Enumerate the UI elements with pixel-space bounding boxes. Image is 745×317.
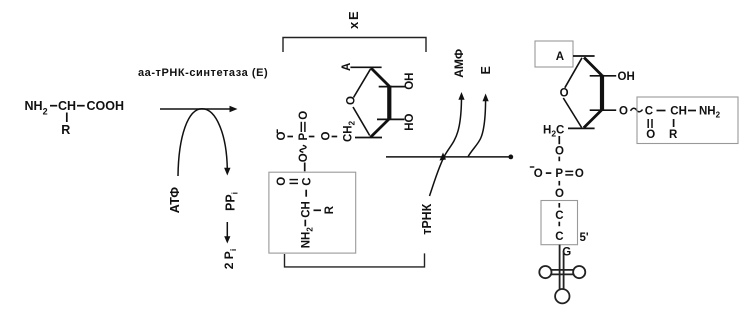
svg-text:5': 5' (580, 232, 589, 244)
svg-text:R: R (61, 123, 70, 137)
bond CH-NH2 (product box) (688, 110, 696, 112)
arc arrowhead down (224, 168, 230, 176)
svg-text:О: О (298, 111, 310, 120)
ribose bond C1'-O (product) (565, 58, 582, 88)
C=O double bond (boxed) (290, 179, 299, 181)
ribose bond O-C4' (intermediate) (353, 107, 370, 136)
svg-text:NН2: NН2 (699, 106, 721, 120)
svg-text:Н2С: Н2С (543, 124, 564, 138)
ribose thick edge C3'-C4' (intermediate) (371, 119, 390, 137)
ribose C1' tick (intermediate) (350, 66, 381, 68)
svg-text:О: О (555, 146, 564, 158)
E arrowhead (483, 94, 489, 102)
svg-text:О: О (575, 168, 584, 180)
svg-text:СН2: СН2 (342, 120, 356, 142)
top bracket (283, 38, 426, 53)
bond C2'-OH (product) (590, 75, 617, 77)
arrow PPi to 2Pi (224, 222, 230, 244)
bond C2'-OH (intermediate) (379, 86, 406, 88)
high-energy squiggle (product) (631, 108, 643, 112)
ribose bond O-C4' (product) (563, 98, 581, 128)
svg-text:R: R (324, 205, 336, 214)
tRNA stem vertical lines (559, 245, 561, 289)
svg-text:СН: СН (301, 201, 313, 218)
tRNA arm horizontal lines (551, 269, 573, 271)
ribose thick edge C1'-C2' (intermediate) (371, 68, 389, 86)
svg-text:О: О (534, 168, 543, 180)
bond H2C down (product) (558, 136, 560, 144)
svg-text:С: С (645, 106, 653, 118)
CC box (product) (541, 201, 578, 245)
bond O-CH2 (intermediate) (332, 136, 338, 138)
bond NH2-CH (50, 105, 57, 107)
ribose thick edge C2'-C3' (intermediate) (387, 86, 391, 120)
phosphate minus (product) (530, 166, 535, 168)
svg-text:АТФ: АТФ (168, 187, 182, 214)
svg-text:NH2: NH2 (25, 99, 48, 117)
ribose thick edge C2'-C3' (product) (600, 75, 604, 110)
svg-text:О: О (298, 153, 310, 162)
adenine A box (product) (535, 41, 573, 67)
svg-text:аа-тРНК-синтетаза (Е): аа-тРНК-синтетаза (Е) (138, 67, 268, 79)
bond CH-R (66, 113, 68, 123)
bond O-P horizontal (product) (546, 172, 552, 174)
svg-text:О: О (276, 132, 288, 141)
svg-text:НО: НО (404, 113, 416, 130)
svg-text:О: О (555, 188, 564, 200)
bond CH-R (boxed) (314, 209, 322, 211)
ribose bond C1'-O (intermediate) (354, 69, 371, 98)
bond C-CH (product box) (657, 110, 666, 112)
ribose C4' tick (product) (568, 127, 595, 129)
bond C3'-O (product) (590, 109, 617, 111)
ribose thick edge C3'-C4' (product) (584, 110, 602, 128)
svg-text:О: О (646, 129, 655, 141)
bottom bracket (285, 253, 425, 267)
ribose C1' tick (product) (573, 55, 595, 57)
svg-text:С: С (555, 210, 563, 222)
svg-text:С: С (555, 231, 563, 243)
svg-text:О: О (560, 88, 569, 100)
C=O double bond (product box) (647, 119, 649, 128)
AMP arrowhead (458, 92, 464, 100)
svg-text:О: О (276, 177, 288, 186)
svg-text:PPi: PPi (224, 192, 240, 211)
tRNA anticodon loop (555, 289, 569, 303)
svg-text:2 Pi: 2 Pi (222, 249, 238, 269)
aminoacyl box (product) (637, 97, 738, 144)
bond O-C into box (intermediate) (304, 163, 306, 172)
bond P-O bridge (intermediate) (309, 136, 315, 138)
bond C-CH (boxed) (305, 190, 307, 197)
high-energy squiggle below P (intermediate) (300, 145, 306, 152)
bond O-C into CC box (product) (558, 203, 560, 208)
svg-text:А: А (556, 51, 564, 63)
svg-text:О: О (619, 105, 628, 117)
svg-text:О: О (321, 132, 333, 141)
ribose C4' tick (intermediate) (355, 137, 382, 139)
P=O double bond (intermediate) (300, 122, 302, 132)
svg-text:Р: Р (298, 133, 310, 141)
svg-text:С: С (302, 177, 314, 185)
reaction arrow 2 (386, 155, 513, 160)
svg-text:Е: Е (479, 66, 493, 74)
svg-text:Р: Р (555, 168, 563, 180)
svg-text:АМФ: АМФ (452, 49, 466, 78)
ATP/PPi coupling arc (178, 109, 227, 176)
amino acid NH2-CH-COOH (25, 99, 125, 117)
amino acid residue box (intermediate) (269, 172, 356, 253)
svg-text:NН2: NН2 (301, 227, 315, 249)
svg-text:ОН: ОН (618, 71, 635, 83)
svg-text:ОН: ОН (404, 73, 416, 90)
svg-text:CH: CH (58, 99, 76, 113)
bond C3'-OH (intermediate) (377, 118, 405, 120)
svg-text:СН: СН (670, 106, 687, 118)
svg-text:тРНК: тРНК (420, 203, 434, 234)
tRNA left loop (539, 266, 551, 278)
bond O-P (product) (558, 157, 560, 162)
ribose thick edge C1'-C2' (product) (584, 58, 602, 76)
bond CH-R (product box) (673, 119, 675, 127)
tRNA right loop (573, 266, 585, 278)
bond O-P (intermediate) (287, 136, 293, 138)
bond CH-COOH (77, 105, 85, 107)
bond P-O down (product) (558, 181, 560, 186)
junction arrowhead on tRNA curve (440, 153, 447, 161)
phosphate O- minus tick (intermediate) (276, 129, 278, 133)
svg-text:хЕ: хЕ (346, 9, 361, 29)
svg-text:COOH: COOH (87, 99, 125, 113)
reaction arrow 1 (160, 106, 238, 113)
bond C-C (product) (558, 222, 560, 227)
tRNA to AMP curve (430, 96, 462, 196)
svg-text:R: R (669, 129, 678, 141)
bond CH-NH2 (boxed) (304, 220, 306, 227)
P=O double bond (product) (565, 170, 573, 172)
E release curve (468, 98, 486, 157)
svg-text:О: О (346, 96, 358, 105)
